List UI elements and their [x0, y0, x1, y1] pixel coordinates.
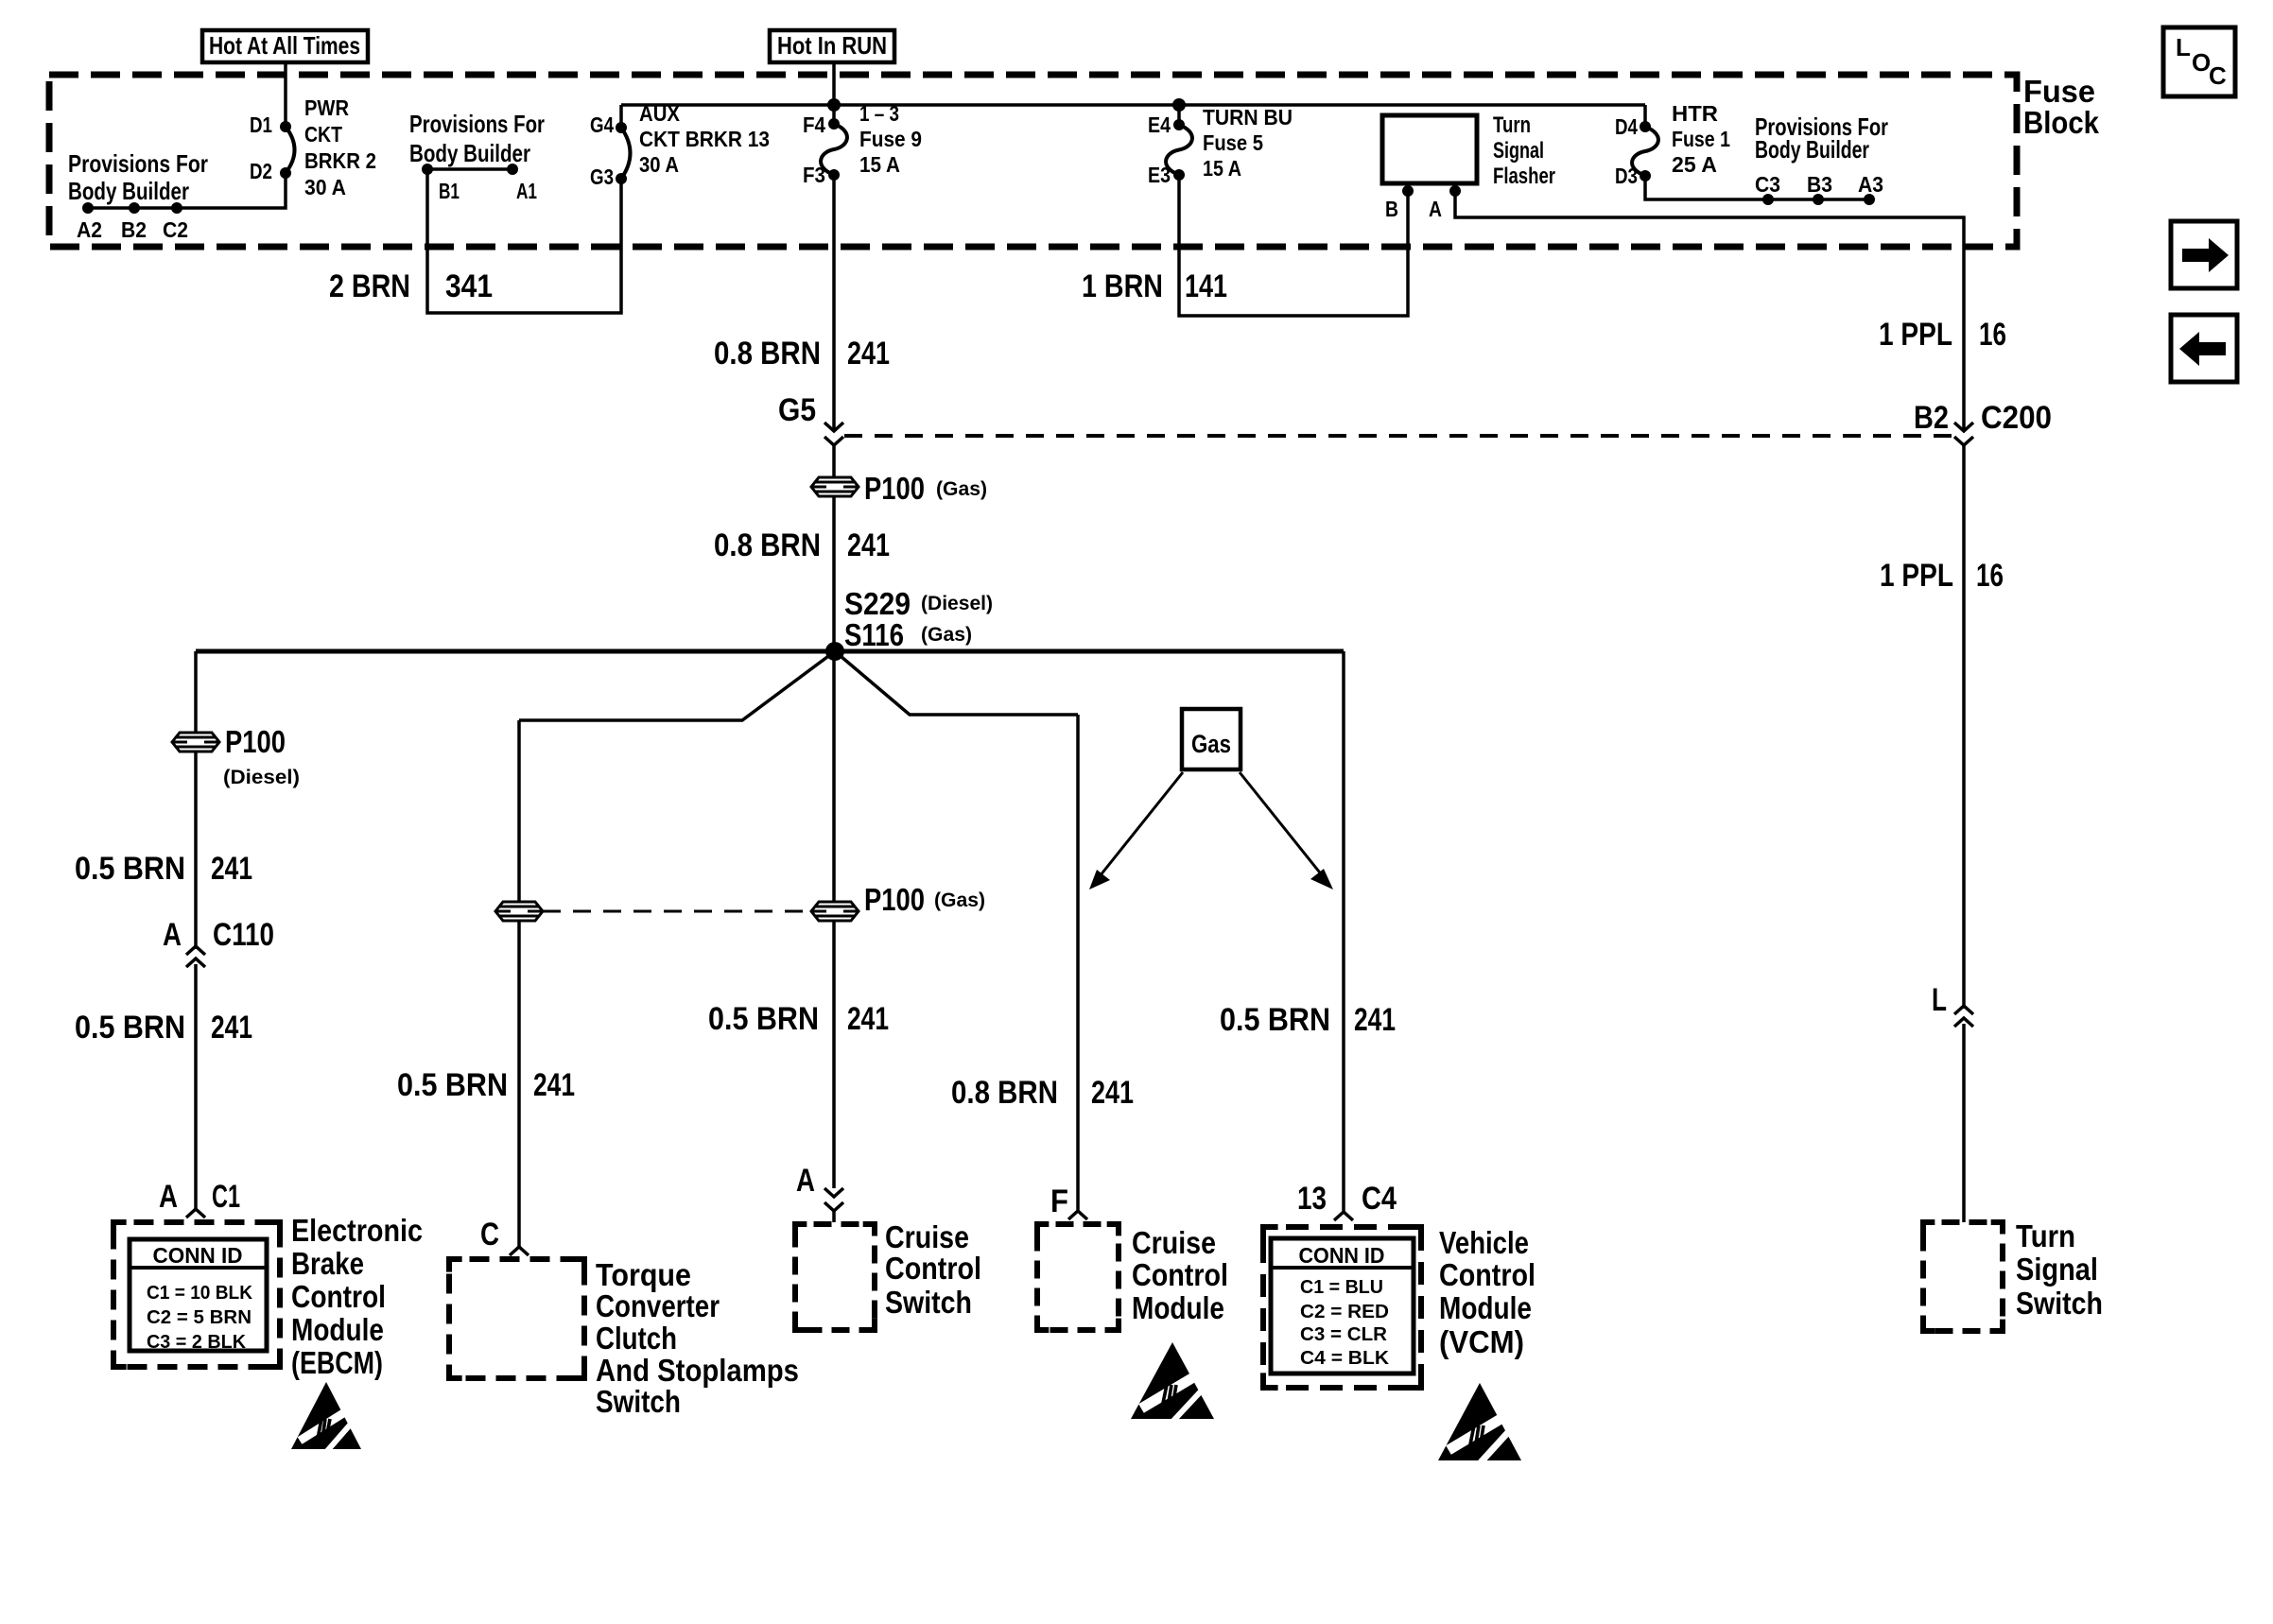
- svg-text:C4 = BLK: C4 = BLK: [1300, 1348, 1390, 1369]
- ESD symbol (VCM): [1438, 1383, 1521, 1460]
- splice junction S116: [825, 642, 844, 661]
- svg-text:Vehicle: Vehicle: [1439, 1225, 1529, 1260]
- svg-text:C200: C200: [1981, 400, 2052, 436]
- TCC switch box (dashed): [449, 1259, 584, 1378]
- svg-text:0.5 BRN: 0.5 BRN: [708, 1001, 819, 1037]
- svg-text:And Stoplamps: And Stoplamps: [596, 1353, 799, 1388]
- svg-text:(Gas): (Gas): [934, 890, 985, 911]
- svg-text:Control: Control: [1439, 1257, 1536, 1292]
- terminal B2: [129, 202, 140, 214]
- svg-text:241: 241: [211, 851, 252, 887]
- svg-text:30 A: 30 A: [304, 175, 346, 199]
- grommet P100 (Gas) upper: [811, 477, 859, 496]
- svg-text:241: 241: [847, 1001, 889, 1037]
- flasher terminal A: [1449, 185, 1461, 197]
- wire: 0.8 BRN 241 (fuse 9 to G5): [832, 175, 836, 431]
- navigation box: arrow left: [2171, 315, 2237, 382]
- svg-text:Brake: Brake: [291, 1246, 364, 1281]
- svg-text:15 A: 15 A: [859, 152, 900, 177]
- wire: ignition feed bus: [621, 103, 1645, 107]
- page locator LOC box: [2163, 27, 2235, 96]
- terminal chevron at VCM 13: [1334, 1212, 1353, 1220]
- svg-text:B2: B2: [121, 217, 147, 242]
- svg-text:P100: P100: [864, 471, 925, 506]
- svg-text:Fuse 9: Fuse 9: [859, 127, 922, 151]
- wire: 2 BRN 341 (B1 to G3): [427, 170, 621, 313]
- svg-text:F3: F3: [803, 163, 825, 187]
- svg-text:C: C: [480, 1217, 499, 1253]
- svg-text:C1 = BLU: C1 = BLU: [1300, 1277, 1383, 1298]
- svg-text:A2: A2: [77, 217, 102, 242]
- EBCM box (dashed): [113, 1222, 280, 1367]
- svg-text:D2: D2: [250, 159, 272, 183]
- svg-text:341: 341: [445, 268, 493, 304]
- wire: B1-A1: [427, 167, 512, 171]
- circuit breaker AUX CKT BRKR 13 (G4-G3): [621, 128, 631, 179]
- svg-text:B: B: [1385, 197, 1398, 221]
- pointer arrow to cruise module wire: [1100, 772, 1183, 876]
- svg-text:Provisions For: Provisions For: [68, 149, 208, 178]
- svg-text:S116: S116: [844, 617, 904, 652]
- svg-text:C110: C110: [213, 917, 274, 953]
- in-line connector L (up chevrons): [1954, 1006, 1973, 1014]
- svg-text:0.5 BRN: 0.5 BRN: [75, 851, 185, 887]
- wire: S116 splice bus: [196, 649, 1344, 654]
- svg-text:Control: Control: [885, 1251, 981, 1286]
- svg-text:B2: B2: [1914, 400, 1949, 436]
- VCM box (dashed): [1263, 1227, 1421, 1388]
- svg-text:16: 16: [1979, 317, 2006, 353]
- cruise control module box (dashed): [1037, 1224, 1119, 1330]
- svg-text:A1: A1: [516, 179, 537, 203]
- fuse block outline (dashed): [49, 75, 2017, 247]
- wire: S116 to cruise switch: [832, 651, 836, 1188]
- EBCM CONN ID table: [130, 1239, 267, 1351]
- navigation box: arrow right: [2171, 221, 2237, 288]
- svg-text:Module: Module: [1439, 1290, 1532, 1325]
- svg-text:E4: E4: [1148, 112, 1171, 137]
- svg-text:Converter: Converter: [596, 1288, 720, 1323]
- svg-text:Provisions For: Provisions For: [409, 110, 545, 138]
- dashed link G5 to C200: [844, 434, 1953, 438]
- svg-text:A: A: [159, 1179, 178, 1215]
- svg-text:Switch: Switch: [885, 1285, 972, 1320]
- svg-text:0.5 BRN: 0.5 BRN: [397, 1067, 508, 1103]
- svg-text:Control: Control: [291, 1279, 386, 1314]
- svg-text:C: C: [2209, 61, 2227, 90]
- svg-text:15 A: 15 A: [1203, 156, 1241, 181]
- svg-text:E3: E3: [1148, 163, 1171, 187]
- svg-text:2 BRN: 2 BRN: [329, 268, 410, 304]
- wire: bus to E4: [1177, 105, 1181, 127]
- svg-text:B3: B3: [1807, 172, 1832, 197]
- wire: 0.8 BRN 241 (G5 to S116): [832, 445, 836, 651]
- ESD symbol (EBCM): [291, 1382, 361, 1449]
- junction: bus / fuse 9: [827, 98, 841, 112]
- wire: S116 to EBCM branch: [194, 651, 198, 949]
- svg-text:1 BRN: 1 BRN: [1082, 268, 1163, 304]
- terminal B3: [1813, 194, 1824, 205]
- svg-text:Turn: Turn: [1493, 112, 1531, 138]
- svg-text:C2 = 5 BRN: C2 = 5 BRN: [147, 1307, 252, 1328]
- svg-text:C2 = RED: C2 = RED: [1300, 1302, 1389, 1322]
- terminal A3: [1864, 194, 1875, 205]
- svg-text:Body Builder: Body Builder: [68, 177, 189, 205]
- svg-text:0.8 BRN: 0.8 BRN: [714, 336, 821, 371]
- terminal chevrons at cruise switch A: [824, 1188, 843, 1197]
- svg-text:16: 16: [1976, 558, 2004, 594]
- label box: Hot At All Times: [202, 30, 368, 62]
- svg-text:HTR: HTR: [1672, 101, 1718, 126]
- svg-text:D3: D3: [1615, 164, 1638, 188]
- terminal C2: [171, 202, 182, 214]
- svg-text:L: L: [1932, 982, 1947, 1018]
- svg-text:F: F: [1050, 1183, 1068, 1219]
- svg-text:L: L: [2176, 33, 2191, 61]
- wire: A2-B2-C2 to D2: [88, 175, 286, 208]
- svg-text:G5: G5: [778, 392, 816, 428]
- svg-text:A: A: [1429, 197, 1442, 221]
- svg-text:(Gas): (Gas): [936, 478, 987, 500]
- svg-text:D1: D1: [250, 112, 272, 137]
- svg-text:PWR: PWR: [304, 95, 349, 120]
- svg-text:Module: Module: [291, 1312, 384, 1347]
- pointer arrow to VCM wire: [1240, 772, 1323, 876]
- svg-text:P100: P100: [864, 882, 925, 917]
- label box: Hot In RUN: [770, 30, 894, 62]
- svg-text:C3: C3: [1755, 172, 1780, 197]
- cruise control switch box (dashed): [795, 1224, 875, 1330]
- terminal chevron at EBCM C1: [186, 1209, 205, 1218]
- svg-text:Body Builder: Body Builder: [1755, 135, 1869, 164]
- grommet P100 (TCC branch): [495, 902, 543, 921]
- svg-text:Fuse 1: Fuse 1: [1672, 127, 1730, 151]
- svg-text:Control: Control: [1132, 1257, 1228, 1292]
- fuse 5 (E4-E3): [1166, 125, 1192, 175]
- svg-text:C1 = 10 BLK: C1 = 10 BLK: [147, 1283, 253, 1304]
- svg-text:B1: B1: [439, 179, 460, 203]
- svg-text:C4: C4: [1362, 1181, 1397, 1217]
- svg-text:Switch: Switch: [2016, 1286, 2103, 1321]
- fuse 9 (F4-F3): [821, 124, 847, 175]
- terminal A2: [82, 202, 94, 214]
- svg-text:1 – 3: 1 – 3: [859, 101, 899, 126]
- terminal chevron at cruise module F: [1068, 1211, 1087, 1219]
- svg-text:A: A: [163, 917, 182, 953]
- svg-text:TURN BU: TURN BU: [1203, 105, 1293, 130]
- terminal A1: [507, 164, 518, 175]
- grommet P100 (Gas) lower: [811, 902, 859, 921]
- VCM CONN ID table: [1271, 1238, 1414, 1373]
- svg-text:Gas: Gas: [1191, 730, 1231, 758]
- svg-text:CONN ID: CONN ID: [153, 1243, 243, 1268]
- svg-text:241: 241: [1354, 1002, 1396, 1038]
- svg-text:241: 241: [847, 336, 890, 371]
- svg-text:241: 241: [1091, 1075, 1134, 1111]
- wire: 1 PPL 16 (C200 to turn signal switch): [1962, 445, 1966, 1009]
- svg-text:(VCM): (VCM): [1439, 1324, 1524, 1359]
- in-line connector G5 (down chevrons): [824, 423, 843, 431]
- flasher terminal B: [1402, 185, 1414, 197]
- note box: Gas: [1182, 709, 1241, 769]
- svg-text:G4: G4: [590, 112, 614, 137]
- svg-text:0.5 BRN: 0.5 BRN: [75, 1010, 185, 1045]
- svg-text:Flasher: Flasher: [1493, 164, 1555, 189]
- turn signal switch box (dashed): [1923, 1222, 2003, 1331]
- terminal chevron at TCC C: [510, 1247, 529, 1255]
- in-line connector C110 (up chevrons): [186, 946, 205, 955]
- ESD symbol (cruise module): [1131, 1342, 1214, 1419]
- svg-text:C1: C1: [212, 1179, 240, 1215]
- grommet P100 (Diesel): [172, 733, 219, 752]
- svg-text:G3: G3: [590, 164, 614, 189]
- svg-text:241: 241: [533, 1067, 575, 1103]
- svg-text:Block: Block: [2023, 105, 2100, 140]
- wire: bus drop to D4: [1643, 105, 1647, 127]
- wire: S116 to TCC switch branch: [519, 651, 835, 720]
- svg-text:BRKR 2: BRKR 2: [304, 148, 376, 173]
- svg-text:Switch: Switch: [596, 1384, 681, 1419]
- svg-text:CKT BRKR 13: CKT BRKR 13: [639, 127, 770, 151]
- wire: bus to F4: [832, 105, 836, 126]
- terminal B1: [422, 164, 433, 175]
- svg-text:P100: P100: [225, 724, 286, 759]
- svg-text:Fuse 5: Fuse 5: [1203, 130, 1263, 155]
- wire: D3 to C3-B3-A3: [1645, 176, 1869, 199]
- svg-text:CKT: CKT: [304, 122, 342, 147]
- svg-text:F4: F4: [803, 112, 825, 137]
- svg-text:241: 241: [211, 1010, 252, 1045]
- svg-text:25 A: 25 A: [1672, 152, 1717, 177]
- svg-text:(Diesel): (Diesel): [921, 593, 993, 614]
- turn signal flasher box: [1382, 115, 1477, 183]
- dashed link between P100 grommets: [543, 910, 811, 913]
- wire: 1 PPL 16 (flasher A to C200): [1455, 191, 1964, 429]
- svg-text:Torque: Torque: [596, 1257, 691, 1292]
- svg-text:Cruise: Cruise: [1132, 1225, 1216, 1260]
- svg-text:241: 241: [847, 527, 890, 563]
- svg-text:Fuse: Fuse: [2023, 74, 2095, 109]
- wire: S116 to VCM: [1342, 651, 1345, 1212]
- svg-text:Signal: Signal: [1493, 138, 1544, 164]
- wire: 1 BRN 141 (E3 to flasher B): [1179, 175, 1408, 316]
- svg-text:Hot In RUN: Hot In RUN: [777, 31, 887, 60]
- wire: Hot At All Times feed to D1: [284, 62, 287, 127]
- svg-text:Clutch: Clutch: [596, 1321, 677, 1356]
- svg-text:A: A: [796, 1163, 815, 1199]
- svg-text:A3: A3: [1858, 172, 1883, 197]
- svg-text:Turn: Turn: [2016, 1218, 2075, 1253]
- svg-text:Module: Module: [1132, 1290, 1224, 1325]
- svg-text:S229: S229: [844, 586, 911, 621]
- svg-text:Signal: Signal: [2016, 1252, 2098, 1287]
- svg-text:(Diesel): (Diesel): [223, 767, 300, 788]
- svg-text:Hot At All Times: Hot At All Times: [209, 31, 360, 60]
- svg-text:Body Builder: Body Builder: [409, 139, 530, 167]
- svg-text:Cruise: Cruise: [885, 1219, 969, 1254]
- svg-text:(EBCM): (EBCM): [291, 1345, 383, 1380]
- svg-text:(Gas): (Gas): [921, 624, 972, 646]
- svg-text:1 PPL: 1 PPL: [1880, 558, 1953, 594]
- svg-text:C3 = 2 BLK: C3 = 2 BLK: [147, 1332, 247, 1353]
- svg-text:141: 141: [1185, 268, 1227, 304]
- terminal C3: [1762, 194, 1774, 205]
- in-line connector C200 (down chevrons): [1954, 423, 1973, 431]
- svg-text:0.8 BRN: 0.8 BRN: [714, 527, 821, 563]
- svg-text:30 A: 30 A: [639, 152, 679, 177]
- svg-text:0.8 BRN: 0.8 BRN: [951, 1075, 1058, 1111]
- svg-text:C3 = CLR: C3 = CLR: [1300, 1324, 1388, 1345]
- wire: S116 to cruise module: [835, 651, 1078, 715]
- svg-text:1 PPL: 1 PPL: [1879, 317, 1952, 353]
- svg-text:CONN ID: CONN ID: [1299, 1243, 1385, 1268]
- circuit breaker PWR CKT BRKR 2 (D1-D2): [286, 127, 295, 173]
- svg-text:D4: D4: [1615, 114, 1638, 139]
- wire: Hot In RUN feed: [832, 62, 836, 107]
- svg-text:13: 13: [1297, 1181, 1327, 1217]
- junction: bus / fuse 5: [1172, 98, 1186, 112]
- svg-text:0.5 BRN: 0.5 BRN: [1220, 1002, 1330, 1038]
- fuse 1 (D4-D3): [1632, 127, 1658, 176]
- wire: bus drop to G4: [619, 105, 623, 128]
- svg-text:Electronic: Electronic: [291, 1213, 423, 1248]
- svg-text:C2: C2: [163, 217, 188, 242]
